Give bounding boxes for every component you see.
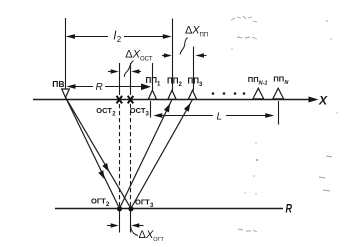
svg-text:ОГТ: ОГТ — [135, 197, 150, 206]
svg-text:ОГТ: ОГТ — [153, 237, 164, 243]
svg-text:ОСТ: ОСТ — [96, 106, 112, 115]
svg-text:ПП: ПП — [200, 33, 209, 39]
svg-text:ПП: ПП — [167, 77, 179, 86]
svg-text:R: R — [96, 82, 103, 93]
svg-text:ОСТ: ОСТ — [140, 57, 153, 63]
svg-text:N-1: N-1 — [259, 81, 268, 87]
svg-text:L: L — [217, 111, 223, 122]
svg-text:ПП: ПП — [248, 75, 259, 84]
svg-text:ПП: ПП — [146, 76, 158, 85]
svg-text:ОГТ: ОГТ — [91, 196, 106, 205]
svg-text:ПП: ПП — [188, 77, 200, 86]
svg-text:ПП: ПП — [273, 75, 284, 84]
svg-text:X: X — [318, 94, 328, 108]
svg-text:ПВ: ПВ — [52, 79, 64, 89]
svg-text:R: R — [286, 202, 293, 216]
svg-text:ОСТ: ОСТ — [130, 106, 146, 115]
svg-text:2: 2 — [117, 35, 122, 44]
